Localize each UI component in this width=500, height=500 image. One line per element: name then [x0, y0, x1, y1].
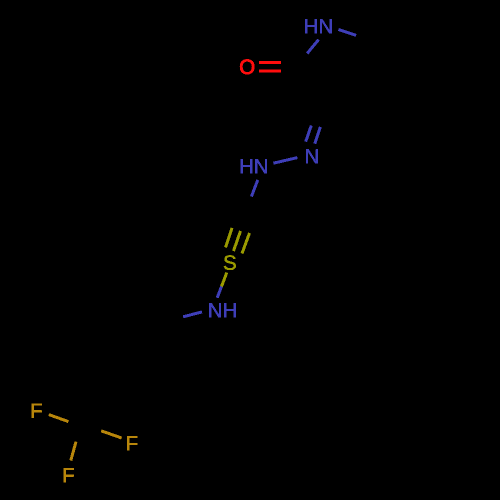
bond N2-N3 (fully blue) — [273, 158, 297, 164]
bond N4-C1' (N half, blue) — [183, 312, 202, 317]
bond C8-S triple bond (S halves, olive) — [226, 228, 250, 254]
atom label F1 — [32, 404, 42, 418]
bond C-F1 (F half, gold) — [49, 415, 69, 422]
bond S-N4 (N half blue) — [217, 287, 221, 298]
atom label HN hydrazide N3 — [241, 159, 267, 173]
bond N1-C7a (N half, blue) — [339, 30, 357, 36]
atom label NH anilino N4 — [209, 303, 235, 317]
atom label S thione — [224, 255, 236, 270]
bond S-N4 (S half olive) — [222, 273, 227, 287]
bond C3=N2 double bond (N halves, blue) — [306, 126, 321, 144]
atom label N hydrazone N2 — [306, 149, 317, 163]
bond C-F3 (F half, gold) — [71, 442, 76, 461]
bond N1-C2 (N half, blue) — [307, 40, 318, 54]
atom label F3 — [64, 468, 74, 482]
atom label F2 — [127, 436, 137, 450]
atom label HN top N1 — [305, 19, 331, 33]
wire: invisible carbon skeleton (black on black) — [80, 13, 447, 429]
bond C-F2 (F half, gold) — [101, 431, 121, 438]
bond N3-C8 (N half, blue) — [251, 180, 257, 197]
bond C2=O double bond (O half, red) — [259, 62, 281, 71]
atom label O carbonyl — [240, 60, 254, 75]
